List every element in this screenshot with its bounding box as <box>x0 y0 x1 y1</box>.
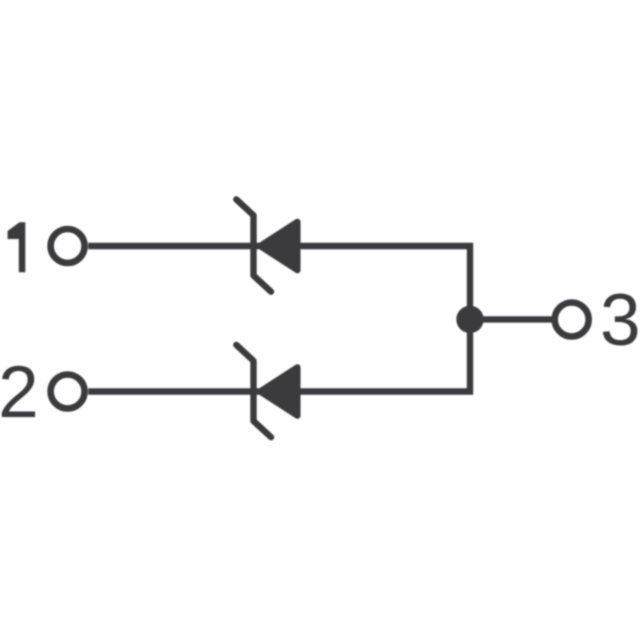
D2 cathode bar (zener) <box>236 345 271 437</box>
zener diode D2 <box>236 345 297 437</box>
D2 anode triangle <box>260 367 298 416</box>
terminal pin 3 <box>555 303 589 337</box>
zener diode D1 <box>236 199 297 291</box>
wire pin1 to D1 anode <box>88 243 260 249</box>
svg-text:2: 2 <box>0 352 39 433</box>
terminal pin 2 <box>51 375 85 409</box>
pin label 1 <box>8 222 26 272</box>
wire D1 cathode to node <box>299 246 470 392</box>
wire node to pin3 <box>470 316 552 322</box>
terminal pin 1 <box>51 229 85 263</box>
D1 anode triangle <box>260 222 298 271</box>
wire pin2 to D2 anode <box>88 388 260 394</box>
D1 cathode bar (zener) <box>236 199 271 291</box>
junction node <box>456 306 483 333</box>
svg-text:3: 3 <box>600 280 640 361</box>
